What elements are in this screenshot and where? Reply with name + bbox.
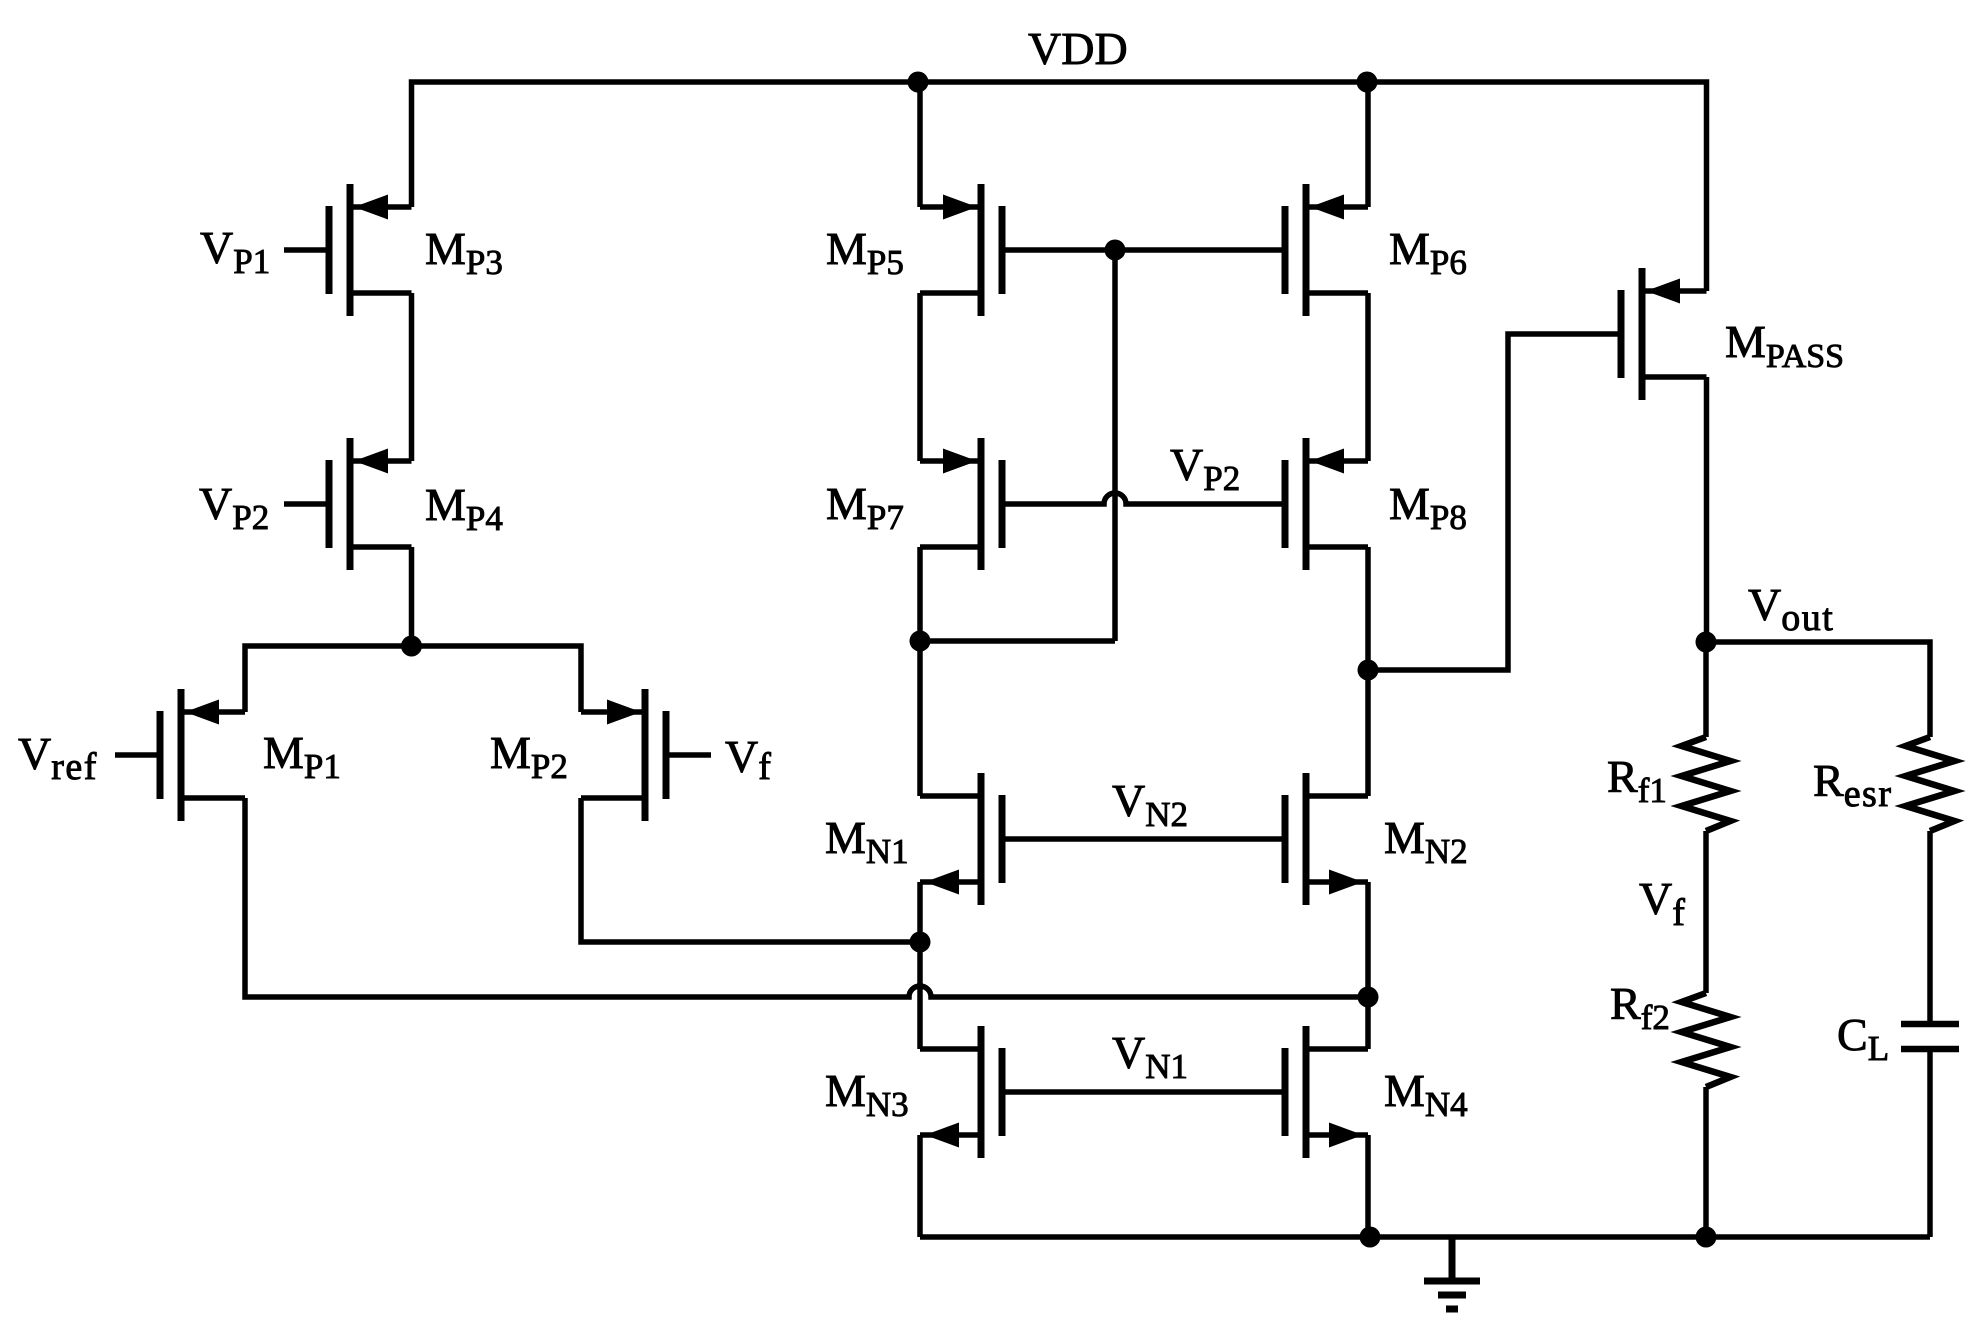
wire MP2 drain to MN1/MN3 node (581, 798, 920, 942)
wire junction to gate bias vertical (920, 638, 1115, 644)
svg-text:Vout: Vout (1748, 579, 1834, 639)
svg-text:MP4: MP4 (425, 479, 503, 538)
transistor MP3 (284, 184, 412, 316)
svg-text:Vf: Vf (725, 731, 771, 788)
svg-text:VN1: VN1 (1112, 1027, 1188, 1086)
node ground rail junction 2 (1696, 1227, 1717, 1248)
transistor MP7 (920, 438, 1002, 570)
wire Rf2 to ground rail (1703, 1087, 1709, 1237)
svg-text:Rf1: Rf1 (1607, 751, 1667, 810)
wire MP4 drain to tail node (409, 547, 415, 646)
svg-text:MP8: MP8 (1389, 478, 1467, 537)
svg-text:MP1: MP1 (263, 727, 341, 786)
wire MP1 drain to MN2/MN4 node (hop at x=920) (245, 798, 1368, 997)
svg-text:CL: CL (1837, 1009, 1889, 1068)
resistor Rf2 (1682, 993, 1731, 1087)
transistor MN1 (920, 773, 1002, 905)
svg-text:VP1: VP1 (200, 222, 270, 281)
svg-text:MP5: MP5 (826, 223, 904, 282)
svg-text:MP6: MP6 (1389, 223, 1467, 282)
transistor MPASS (1621, 268, 1707, 400)
svg-text:MN3: MN3 (825, 1065, 909, 1124)
wire MP5/MP6 gate vertical (1112, 250, 1118, 641)
svg-text:Vref: Vref (18, 728, 98, 788)
node ground rail junction 1 (1360, 1227, 1381, 1248)
svg-text:Rf2: Rf2 (1610, 978, 1670, 1037)
svg-text:MPASS: MPASS (1725, 316, 1844, 375)
svg-text:MN1: MN1 (825, 812, 909, 871)
wire MN4 source to ground rail (1365, 1135, 1371, 1237)
transistor MN3 (920, 1026, 1002, 1158)
node Vout (1696, 632, 1717, 653)
wire Vout to Resr branch (1706, 642, 1930, 737)
node MN2 source junction (1358, 987, 1379, 1008)
svg-text:VDD: VDD (1028, 23, 1128, 74)
svg-text:MP2: MP2 (490, 727, 568, 786)
wire MN3 source to ground rail (917, 1135, 923, 1237)
wire MP6 drain to MP8 source (1365, 293, 1371, 461)
node VDD junction right (1357, 72, 1378, 93)
svg-text:MN2: MN2 (1384, 812, 1468, 871)
svg-text:MP3: MP3 (425, 223, 503, 282)
transistor MP5 (920, 184, 1002, 316)
transistor MP8 (1285, 438, 1368, 570)
transistor MN2 (1285, 773, 1368, 905)
resistor Resr (1906, 737, 1955, 831)
svg-text:MN4: MN4 (1384, 1065, 1468, 1124)
ground (1424, 1237, 1480, 1309)
wire MP8 drain to MN2 drain (1365, 547, 1371, 796)
svg-text:Vf: Vf (1639, 873, 1685, 934)
wire MN1-MN2 gate link VN2 (1002, 836, 1285, 842)
wire MP8 drain node to MPASS gate (1368, 334, 1620, 670)
node MP7 drain junction (910, 631, 931, 652)
wire VDD rail (412, 82, 1707, 291)
transistor MP6 (1285, 184, 1368, 316)
capacitor CL (1901, 1024, 1959, 1049)
wire Vout to Rf1 (1703, 642, 1709, 737)
wire ground rail (920, 1234, 1930, 1240)
svg-text:MP7: MP7 (826, 478, 904, 537)
svg-text:VN2: VN2 (1112, 775, 1188, 834)
svg-text:Resr: Resr (1813, 755, 1893, 815)
wire VDD to MP5 source (917, 82, 923, 207)
wire Rf1 to Rf2 (node Vf) (1703, 831, 1709, 993)
node MP5/MP6 gate junction (1105, 240, 1126, 261)
svg-text:VP2: VP2 (199, 478, 269, 537)
wire MP7-MP8 gate link VP2 (hop at x=1115) (1002, 493, 1285, 504)
node MP8 drain junction (1358, 660, 1379, 681)
wire VDD to MP6 source (1365, 82, 1371, 207)
wire tail node to MP1/MP2 sources (245, 646, 581, 712)
wire MN2 source to MN4 drain (1365, 882, 1371, 1049)
transistor MN4 (1285, 1026, 1368, 1158)
wire MN3-MN4 gate link VN1 (1002, 1089, 1285, 1095)
node MN1 source junction (910, 932, 931, 953)
node tail junction (401, 636, 422, 657)
wire MP5 drain to MP7 source (917, 293, 923, 461)
wire MPASS drain to Vout (1704, 377, 1710, 642)
wire CL to ground rail (1927, 1049, 1933, 1237)
transistor MP1 (115, 689, 245, 821)
wire MP7 drain to MN1 drain (917, 547, 923, 796)
svg-text:VP2: VP2 (1170, 439, 1240, 498)
transistor MP2 (581, 689, 711, 821)
wire MN1 source to MN3 drain (917, 882, 923, 1049)
wire MP5-MP6 gate link (1002, 247, 1285, 253)
wire Resr to CL (1927, 831, 1933, 1024)
transistor MP4 (284, 438, 412, 570)
wire MP3 drain to MP4 source (409, 293, 415, 461)
resistor Rf1 (1682, 737, 1731, 831)
node VDD junction left (908, 72, 929, 93)
